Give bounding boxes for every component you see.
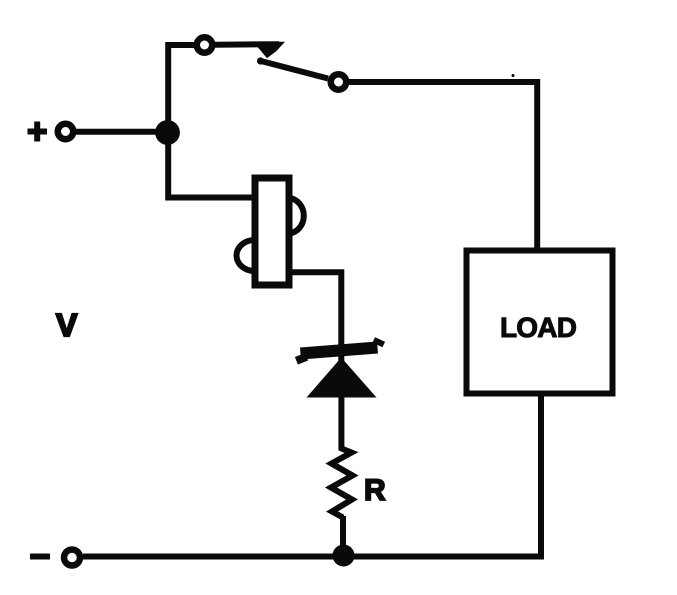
wire LOAD bottom to bottom rail [83, 394, 541, 557]
LOAD box [467, 251, 613, 394]
zener diode D1 left hook [300, 355, 303, 363]
zener diode D1 anode triangle [307, 358, 377, 398]
resistor R zigzag [331, 446, 353, 518]
node junction (bottom) [333, 545, 355, 567]
relay coil K1 core rectangle [255, 178, 289, 285]
terminal plus sign [28, 122, 48, 142]
wire + terminal to junction [76, 129, 167, 135]
relay coil K1 left loop [237, 240, 255, 271]
wire coil to zener [289, 272, 341, 396]
switch arrowhead [258, 42, 285, 58]
terminal minus sign [30, 554, 50, 560]
node junction (+) [155, 120, 180, 145]
svg-text:V: V [56, 307, 78, 343]
wire junction down to relay coil [168, 133, 253, 198]
terminal circle (-) [64, 550, 80, 566]
relay coil K1 right loop [289, 198, 304, 234]
switch blade end hook [257, 57, 264, 64]
speck artifact [512, 74, 515, 77]
wire zener to resistor [338, 396, 344, 449]
wire junction up to switch pole [168, 45, 195, 132]
wire resistor to bottom rail [340, 516, 346, 556]
svg-text:R: R [364, 474, 386, 507]
zener diode D1 cathode bar [301, 348, 378, 354]
svg-text:LOAD: LOAD [500, 312, 577, 343]
wire switch pole to arrow [215, 41, 279, 48]
switch blade [259, 61, 328, 79]
zener diode D1 right hook [378, 340, 381, 346]
wire throw contact to LOAD top [349, 82, 537, 249]
terminal circle (+) [58, 124, 74, 140]
switch throw circle [331, 74, 347, 90]
switch pole circle [197, 37, 213, 53]
